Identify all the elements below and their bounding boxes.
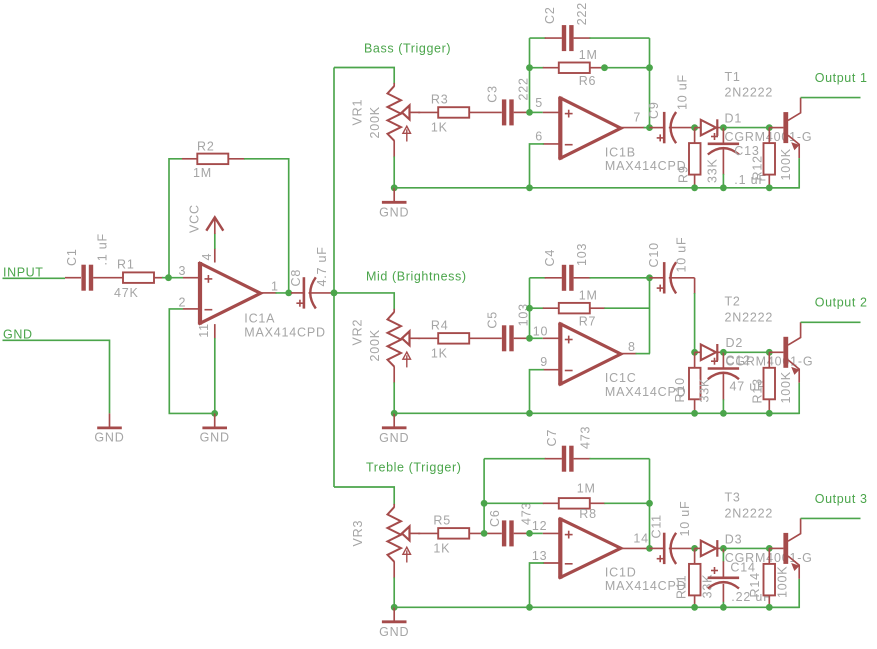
transistor T3 2N2222 xyxy=(783,533,788,564)
wire bus tap to potentiometer xyxy=(334,68,394,85)
junction pot ground xyxy=(391,184,398,191)
capacitor C14 .22 uF vertical xyxy=(722,548,724,553)
wire R4 to C5 xyxy=(469,337,502,339)
svg-text:IC1A: IC1A xyxy=(244,312,275,326)
wire pin 11 to ground junction xyxy=(214,338,216,413)
junction diode node xyxy=(691,124,698,131)
svg-text:R6: R6 xyxy=(579,74,597,88)
wire wiper to R3 xyxy=(418,111,438,113)
wire base stub xyxy=(769,351,783,353)
svg-text:R9: R9 xyxy=(677,165,691,183)
svg-text:T2: T2 xyxy=(725,295,741,309)
junction vres2 ground xyxy=(766,410,773,417)
power symbol VCC xyxy=(214,218,216,234)
svg-text:1M: 1M xyxy=(577,482,596,496)
wire pot top lead xyxy=(393,309,395,313)
wire +input pin stub xyxy=(530,532,543,534)
capacitor C3 222 xyxy=(502,99,506,125)
svg-text:222: 222 xyxy=(575,2,589,25)
ground symbol VR2 xyxy=(393,413,395,427)
wire collector to output xyxy=(801,321,861,323)
wire pot bottom to rail xyxy=(393,140,395,157)
resistor R1 xyxy=(123,272,154,283)
wire pot bottom to rail xyxy=(393,561,395,578)
junction -input ground xyxy=(526,184,533,191)
wire ground rail xyxy=(394,187,799,189)
wire collector to output xyxy=(801,97,861,99)
wire pin 3 stub xyxy=(183,277,199,279)
svg-text:1M: 1M xyxy=(579,48,598,62)
svg-text:2N2222: 2N2222 xyxy=(725,86,774,100)
junction output node xyxy=(285,290,292,297)
wire collector to output xyxy=(801,517,861,519)
pin 2 stub xyxy=(183,308,199,310)
wire cap to +input junction xyxy=(514,337,530,339)
resistor R2 1M feedback xyxy=(197,154,228,165)
svg-text:1M: 1M xyxy=(193,166,212,180)
op-amp IC1D xyxy=(558,518,562,579)
wire ground rail xyxy=(394,606,799,608)
diode D2 CGRM4001-G xyxy=(695,351,701,353)
junction vres1 ground xyxy=(691,410,698,417)
wire ground rail xyxy=(394,412,799,414)
resistor R5 1K xyxy=(438,528,469,539)
wire feedback right vertical xyxy=(649,459,651,549)
svg-text:8: 8 xyxy=(628,340,636,354)
svg-text:D1: D1 xyxy=(725,112,743,126)
transistor T2 2N2222 xyxy=(783,337,788,368)
junction diode cathode node xyxy=(720,124,727,131)
junction diode cathode node xyxy=(720,545,727,552)
op-amp IC1C xyxy=(558,323,562,386)
pin 11 stub xyxy=(214,324,216,339)
resistor R7 1M xyxy=(559,303,590,314)
svg-text:10 uF: 10 uF xyxy=(676,74,690,110)
svg-text:GND: GND xyxy=(379,205,409,219)
wire pin1 to C8 xyxy=(276,292,293,294)
svg-text:D2: D2 xyxy=(726,336,744,350)
junction +input xyxy=(526,335,533,342)
wire pot top lead xyxy=(393,504,395,508)
junction -input ground xyxy=(526,604,533,611)
svg-text:T1: T1 xyxy=(725,70,741,84)
wire feedback right vertical xyxy=(649,278,651,354)
ground symbol VR1 xyxy=(393,188,395,202)
wire cap to diode node xyxy=(669,547,695,549)
svg-text:R3: R3 xyxy=(431,93,449,107)
resistor R9 33K vertical xyxy=(694,128,696,144)
svg-text:222: 222 xyxy=(517,77,531,100)
svg-text:C2: C2 xyxy=(543,6,557,24)
junction base node xyxy=(766,545,773,552)
svg-text:C6: C6 xyxy=(488,509,502,527)
svg-text:R1: R1 xyxy=(117,257,135,271)
junction output row right xyxy=(646,545,653,552)
svg-text:10 uF: 10 uF xyxy=(675,237,689,273)
wire -input to ground rail xyxy=(543,562,559,564)
wire +input pin stub xyxy=(530,111,543,113)
junction vres1 ground xyxy=(691,604,698,611)
junction base node xyxy=(766,124,773,131)
svg-text:D3: D3 xyxy=(725,532,743,546)
svg-text:Treble (Trigger): Treble (Trigger) xyxy=(366,461,462,475)
svg-text:T3: T3 xyxy=(725,491,741,505)
junction feedback-Rfb row xyxy=(526,305,533,312)
wire Rfb right lead xyxy=(590,502,606,504)
capacitor C13 .1 uF vertical xyxy=(722,128,724,144)
wire R5 to C6 xyxy=(469,532,502,534)
ground symbol IC1A xyxy=(214,413,216,427)
wire R2 left to node A xyxy=(169,159,182,278)
wire pin 8 to feedback xyxy=(621,353,637,355)
junction base node xyxy=(766,349,773,356)
junction pot ground xyxy=(391,410,398,417)
resistor R14 100K vertical xyxy=(768,548,770,564)
svg-text:C3: C3 xyxy=(486,85,500,103)
junction bus node xyxy=(331,290,338,297)
wire cap to diode node xyxy=(669,127,695,129)
svg-text:CGRM4001-G: CGRM4001-G xyxy=(725,130,813,144)
wire emitter to ground rail xyxy=(769,158,799,188)
wire Rfb left lead xyxy=(530,67,544,69)
svg-text:R8: R8 xyxy=(579,507,597,521)
svg-text:200K: 200K xyxy=(368,106,382,138)
op-amp IC1B xyxy=(558,97,562,160)
svg-text:Output 3: Output 3 xyxy=(815,492,868,506)
wire pot bottom to rail xyxy=(393,366,395,383)
svg-text:R10: R10 xyxy=(673,377,687,402)
wire Rfb right lead xyxy=(590,307,606,309)
wire C1 left lead xyxy=(65,277,81,279)
svg-text:14: 14 xyxy=(633,531,649,545)
resistor R12 100K vertical xyxy=(768,128,770,144)
svg-text:.1 uF: .1 uF xyxy=(96,233,110,266)
potentiometer VR2 200K xyxy=(388,312,402,367)
capacitor C12 47 uF vertical xyxy=(722,352,724,368)
svg-text:7: 7 xyxy=(633,111,641,125)
svg-text:GND: GND xyxy=(94,431,124,445)
svg-text:C9: C9 xyxy=(647,101,661,119)
svg-text:10: 10 xyxy=(533,325,549,339)
svg-text:C4: C4 xyxy=(543,249,557,267)
svg-text:Output 1: Output 1 xyxy=(815,71,868,85)
transistor T1 2N2222 xyxy=(783,112,788,143)
junction +input xyxy=(526,530,533,537)
wire diode node to base node xyxy=(723,351,769,353)
wire feedback left vertical xyxy=(529,38,531,112)
junction +input xyxy=(526,109,533,116)
junction vcap ground xyxy=(720,410,727,417)
wire base stub xyxy=(769,127,783,129)
wire feedback cap row left xyxy=(530,277,546,279)
capacitor C8 4.7uF xyxy=(303,277,306,308)
junction diode node xyxy=(691,545,698,552)
svg-text:Bass (Trigger): Bass (Trigger) xyxy=(364,42,451,56)
wire R2 right to output node xyxy=(228,158,245,160)
wire R1 to node A xyxy=(154,277,163,279)
wire feedback cap row right xyxy=(574,37,591,39)
wire op-amp output stub xyxy=(621,127,645,129)
wire bus tap to potentiometer xyxy=(334,487,394,505)
junction diode cathode node xyxy=(720,349,727,356)
svg-text:2N2222: 2N2222 xyxy=(725,310,774,324)
pin 4 stub xyxy=(214,248,216,262)
wire C8 to bus xyxy=(309,292,337,294)
svg-text:100K: 100K xyxy=(779,148,793,180)
svg-text:1K: 1K xyxy=(433,542,450,556)
junction vcap ground xyxy=(720,604,727,611)
wire feedback cap row left xyxy=(530,37,546,39)
svg-text:10 uF: 10 uF xyxy=(678,501,692,537)
junction output row right xyxy=(646,124,653,131)
svg-text:R13: R13 xyxy=(751,378,765,403)
junction diode node xyxy=(691,349,698,356)
capacitor C7 473 xyxy=(562,446,566,472)
wire INPUT net xyxy=(3,277,66,279)
svg-text:12: 12 xyxy=(532,519,548,533)
svg-text:6: 6 xyxy=(535,130,543,144)
wire cap to +input junction xyxy=(514,111,530,113)
wire feedback cap row right xyxy=(574,458,591,460)
resistor R10 33K vertical xyxy=(694,352,696,368)
junction vcap ground xyxy=(720,184,727,191)
svg-text:IC1C: IC1C xyxy=(605,371,637,385)
wire diode node to base node xyxy=(723,127,769,129)
junction feedback-Rfb row xyxy=(526,64,533,71)
svg-text:3: 3 xyxy=(179,264,187,278)
svg-text:R12: R12 xyxy=(751,155,765,180)
diode D3 CGRM4001-G xyxy=(695,547,701,549)
svg-text:C11: C11 xyxy=(650,514,664,538)
wire emitter to ground rail xyxy=(769,579,799,607)
svg-text:Output 2: Output 2 xyxy=(815,296,868,310)
svg-text:1: 1 xyxy=(271,280,279,294)
junction Rfb row right xyxy=(646,500,653,507)
potentiometer VR3 xyxy=(388,507,402,562)
wire VCC net segment xyxy=(214,233,216,249)
svg-text:1K: 1K xyxy=(431,347,448,361)
wire feedback left vertical xyxy=(529,278,531,339)
potentiometer VR1 200K xyxy=(388,86,402,141)
svg-text:VR2: VR2 xyxy=(351,319,365,346)
svg-text:IC1D: IC1D xyxy=(605,565,637,579)
svg-text:Mid (Brightness): Mid (Brightness) xyxy=(366,270,467,284)
resistor R4 1K xyxy=(438,333,469,344)
svg-text:9: 9 xyxy=(540,355,548,369)
resistor R3 1K xyxy=(438,107,469,118)
svg-text:C8: C8 xyxy=(289,269,303,287)
svg-text:1K: 1K xyxy=(431,121,448,135)
svg-text:100K: 100K xyxy=(779,371,793,403)
capacitor C10 10 uF xyxy=(650,277,665,279)
svg-text:R4: R4 xyxy=(431,318,449,332)
svg-text:4.7 uF: 4.7 uF xyxy=(315,246,329,286)
svg-text:R11: R11 xyxy=(675,575,689,599)
svg-text:13: 13 xyxy=(532,549,548,563)
wire feedback left vertical xyxy=(483,459,485,534)
wire feedback right vertical xyxy=(649,38,651,128)
wire feedback cap row left xyxy=(484,458,546,460)
wire wiper to R4 xyxy=(418,337,438,339)
capacitor C11 10 uF xyxy=(650,547,665,549)
svg-text:GND: GND xyxy=(3,327,33,341)
capacitor C1 xyxy=(81,265,85,291)
svg-text:VR3: VR3 xyxy=(351,520,365,547)
ground symbol input GND xyxy=(109,413,111,427)
resistor R11 33K vertical xyxy=(694,548,696,564)
svg-text:C12: C12 xyxy=(726,354,751,368)
svg-text:5: 5 xyxy=(535,96,543,110)
junction IC1A ground xyxy=(211,410,218,417)
resistor R8 1M xyxy=(559,498,590,509)
svg-text:4: 4 xyxy=(200,253,214,261)
capacitor C5 103 xyxy=(502,325,506,351)
wire R3 to C3 xyxy=(469,111,502,113)
wire bus tap to potentiometer xyxy=(334,293,394,310)
wire cap to +input junction xyxy=(514,532,530,534)
junction Rfb right xyxy=(601,64,608,71)
svg-text:GND: GND xyxy=(200,431,230,445)
wire Rfb left lead xyxy=(530,307,544,309)
wire GND net to ground xyxy=(3,340,110,413)
junction -input ground xyxy=(526,410,533,417)
junction vres2 ground xyxy=(766,184,773,191)
junction bus tap xyxy=(331,290,338,297)
svg-text:MAX414CPD: MAX414CPD xyxy=(605,159,687,173)
wire pin 2 to ground rail xyxy=(169,309,214,414)
svg-text:C10: C10 xyxy=(647,242,661,267)
wire diode node to base node xyxy=(723,547,769,549)
svg-text:R2: R2 xyxy=(197,140,215,154)
svg-text:103: 103 xyxy=(575,243,589,266)
svg-text:473: 473 xyxy=(579,426,593,449)
ground symbol VR3 xyxy=(393,607,395,621)
wire emitter to ground rail xyxy=(769,383,799,414)
wire wiper to R5 xyxy=(418,532,438,534)
svg-text:VCC: VCC xyxy=(188,204,202,233)
svg-text:C5: C5 xyxy=(486,311,500,329)
svg-text:INPUT: INPUT xyxy=(3,265,44,279)
wire +input pin stub xyxy=(530,337,543,339)
wire main bus vertical xyxy=(333,68,335,488)
svg-text:IC1B: IC1B xyxy=(605,145,636,159)
wire base stub xyxy=(769,547,783,549)
junction vres2 ground xyxy=(766,604,773,611)
svg-text:1M: 1M xyxy=(579,288,598,302)
svg-text:2: 2 xyxy=(179,295,187,309)
svg-text:100K: 100K xyxy=(776,566,790,598)
junction Rfb row right xyxy=(646,64,653,71)
diode D1 CGRM4001-G xyxy=(695,127,701,129)
svg-text:R5: R5 xyxy=(433,514,451,528)
op-amp U1 IC1A xyxy=(198,262,202,325)
svg-text:200K: 200K xyxy=(368,329,382,361)
junction C4-C10 node xyxy=(646,274,653,281)
wire feedback cap row right xyxy=(574,277,591,279)
pin 1 output stub xyxy=(261,292,277,294)
junction R5-C6 node xyxy=(481,530,488,537)
wire -input to ground rail xyxy=(543,143,559,145)
junction vres1 ground xyxy=(691,184,698,191)
wire pot top lead xyxy=(393,83,395,87)
capacitor C4 103 xyxy=(562,265,566,291)
resistor R6 1M xyxy=(559,63,590,74)
svg-text:VR1: VR1 xyxy=(351,99,365,126)
wire -input to ground rail xyxy=(543,369,559,371)
wire into C8 xyxy=(291,292,304,294)
svg-text:R14: R14 xyxy=(748,572,762,597)
wire C1 to R1 xyxy=(93,277,123,279)
junction feedback-R8 row xyxy=(481,500,488,507)
svg-text:GND: GND xyxy=(379,625,409,639)
wire C10 down to diode node xyxy=(669,277,695,279)
wire Rfb left lead xyxy=(484,502,544,504)
svg-text:47K: 47K xyxy=(114,286,139,300)
node A junction (pin 3) xyxy=(165,274,172,281)
svg-text:11: 11 xyxy=(197,323,211,338)
capacitor C6 473 xyxy=(502,520,506,546)
svg-text:C7: C7 xyxy=(545,429,559,447)
svg-text:2N2222: 2N2222 xyxy=(725,506,774,520)
svg-text:33K: 33K xyxy=(697,378,711,403)
wire Rfb right lead xyxy=(590,67,606,69)
capacitor C9 10 uF xyxy=(650,127,665,129)
junction pot ground xyxy=(391,604,398,611)
svg-text:MAX414CPD: MAX414CPD xyxy=(244,326,326,340)
resistor R13 100K vertical xyxy=(768,352,770,368)
svg-text:C1: C1 xyxy=(65,248,79,266)
wire op-amp output stub xyxy=(621,547,648,549)
svg-text:33K: 33K xyxy=(706,158,720,183)
svg-text:GND: GND xyxy=(379,431,409,445)
svg-text:R7: R7 xyxy=(579,315,597,329)
capacitor C2 222 xyxy=(562,25,566,51)
